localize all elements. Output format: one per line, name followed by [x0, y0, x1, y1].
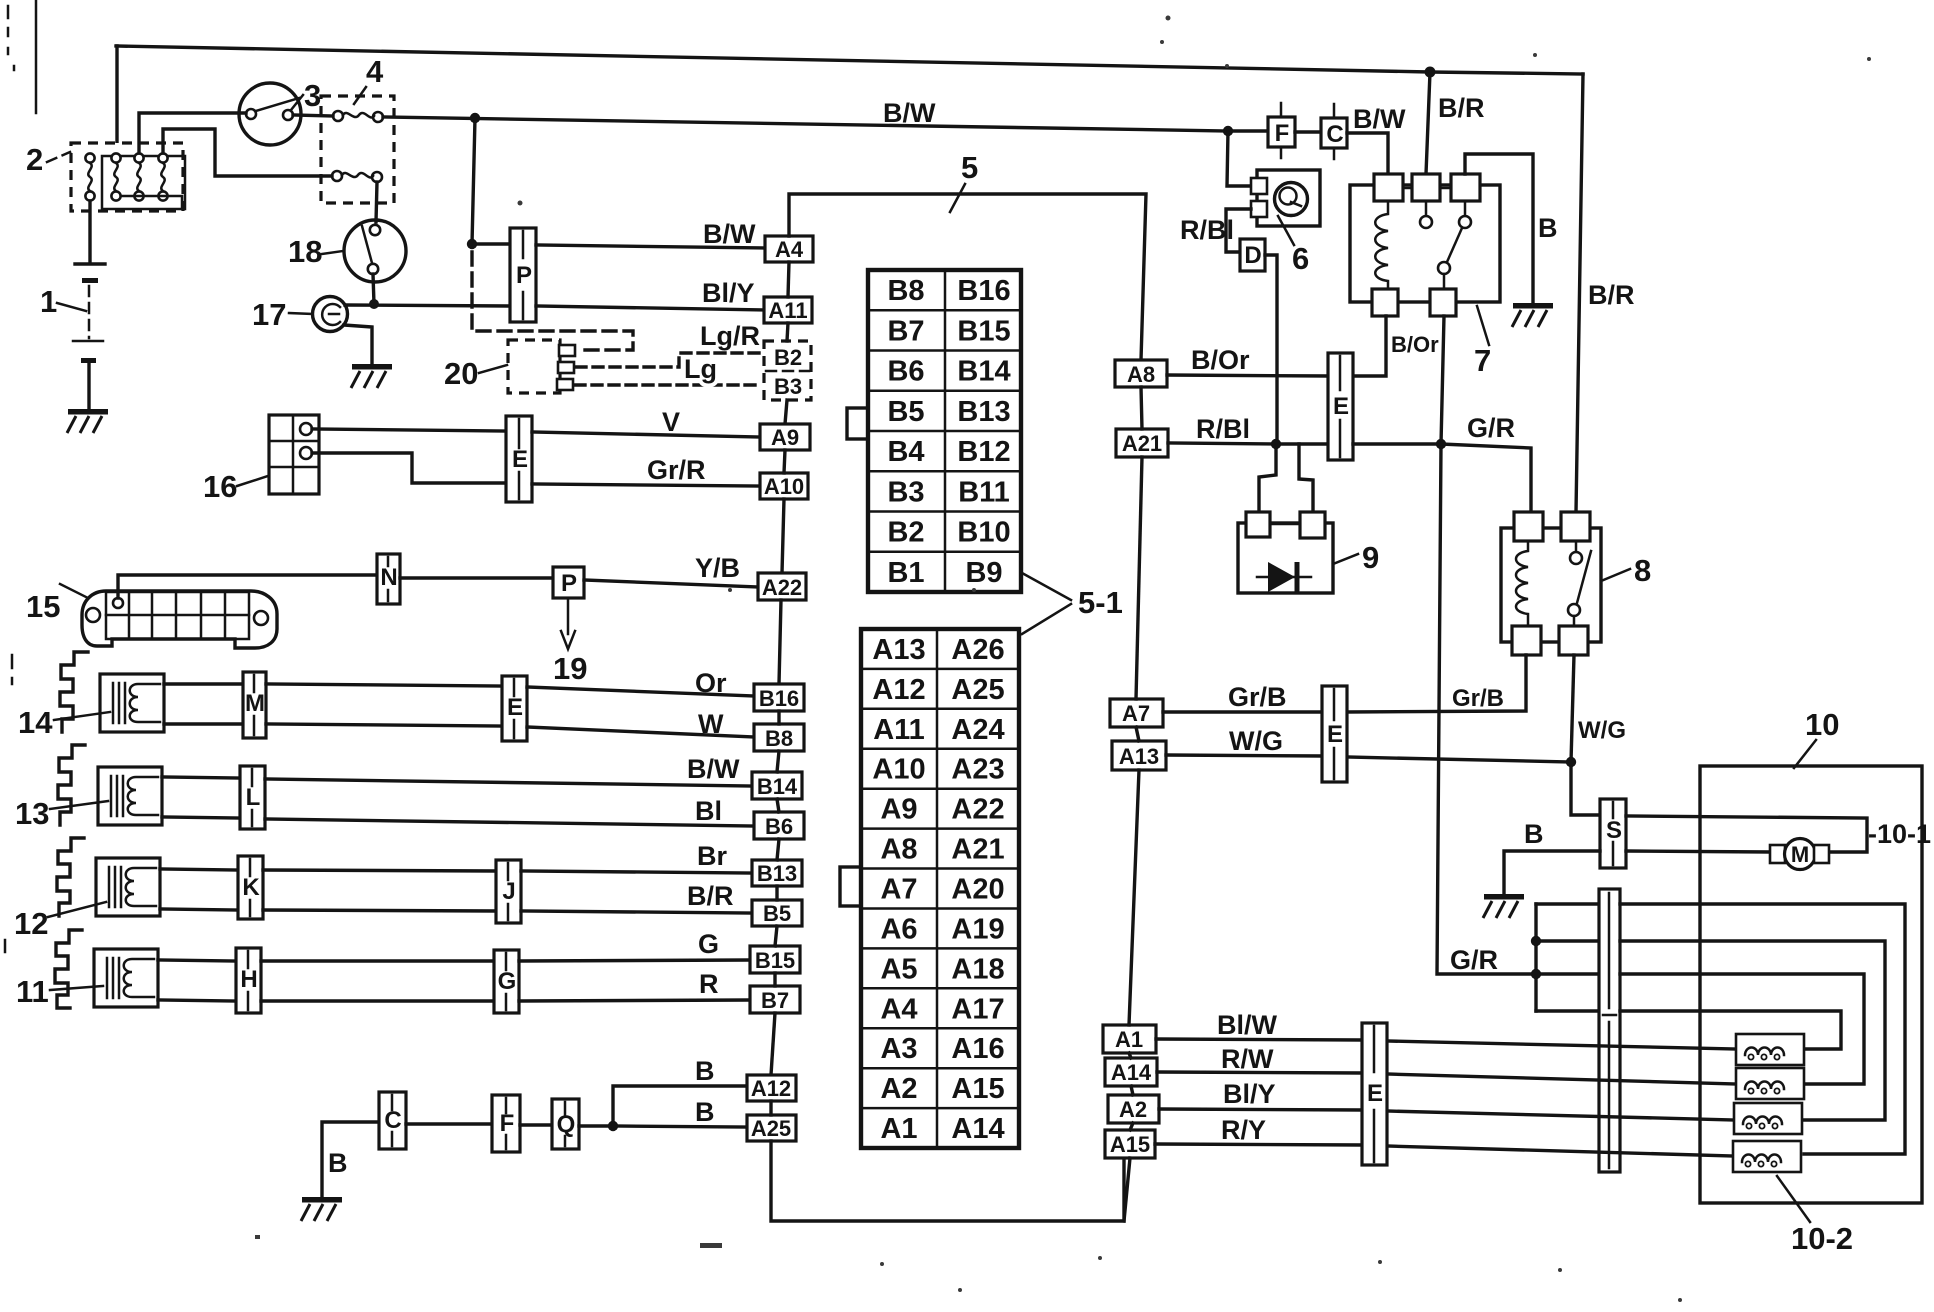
- ignition coil 13: [98, 767, 162, 825]
- wire: fuse2 top to top supply line: [115, 46, 118, 153]
- wire: E to coil3 Bl/Y: [1387, 1111, 1734, 1120]
- svg-text:A6: A6: [880, 913, 917, 945]
- svg-text:H: H: [240, 966, 257, 993]
- wire: drop to connector P: [472, 118, 475, 244]
- node: junction B wires: [608, 1121, 618, 1131]
- svg-text:Bl/Y: Bl/Y: [702, 278, 755, 308]
- wire: E to coil2 R/W: [1387, 1074, 1736, 1084]
- svg-text:B: B: [1524, 819, 1544, 849]
- svg-text:B8: B8: [887, 275, 924, 307]
- svg-text:A5: A5: [880, 953, 917, 985]
- svg-text:P: P: [561, 570, 577, 597]
- terminal B8: [754, 724, 804, 751]
- svg-text:B12: B12: [957, 436, 1010, 468]
- svg-text:Or: Or: [695, 668, 727, 698]
- svg-text:A11: A11: [873, 714, 925, 746]
- wire: A1 to E Bl/W: [1156, 1039, 1362, 1040]
- svg-text:B5: B5: [763, 901, 791, 926]
- svg-text:13: 13: [15, 796, 49, 831]
- svg-text:9: 9: [1362, 540, 1379, 575]
- svg-text:R/W: R/W: [1221, 1044, 1274, 1074]
- wire: fuse bottoms bus: [121, 196, 182, 208]
- svg-text:A15: A15: [951, 1073, 1004, 1105]
- wire: L to B14 B/W: [265, 779, 752, 786]
- callout line for 18: [322, 251, 343, 254]
- svg-text:A26: A26: [951, 634, 1004, 666]
- connector P: [510, 228, 536, 322]
- wire: fuse 2c to switch 3: [139, 113, 246, 153]
- svg-text:W: W: [698, 709, 724, 739]
- wire: A-bus A7-A13: [1136, 727, 1139, 741]
- wire: coil11 to H bottom: [158, 1000, 236, 1001]
- svg-text:L: L: [246, 784, 261, 811]
- connector E (mid): [1328, 353, 1353, 460]
- wire: A22 to B16 bus: [779, 600, 781, 684]
- ignition coil 11: [94, 949, 158, 1007]
- wire: A25 to bottom bus to A15: [771, 1141, 1124, 1221]
- wire: Q to junction: [579, 1124, 613, 1127]
- wire: relay 8 BR down W/G: [1571, 655, 1574, 762]
- relay 8 terminal TL: [1514, 512, 1543, 541]
- ground (harness B): [301, 1197, 342, 1221]
- dashed harness from P junction: [472, 252, 633, 350]
- wire: R/Bl junction to E: [1276, 442, 1328, 445]
- svg-text:A4: A4: [880, 993, 917, 1025]
- diode unit 9 outline: [1238, 523, 1333, 593]
- svg-text:A25: A25: [951, 674, 1004, 706]
- svg-text:Gr/B: Gr/B: [1452, 685, 1504, 712]
- svg-text:A20: A20: [951, 874, 1004, 906]
- relay 7 contact moving: [1464, 201, 1467, 216]
- wire: B1-B2 link: [1398, 301, 1430, 304]
- svg-text:A11: A11: [768, 298, 807, 323]
- node: junction top wire B/R: [1425, 67, 1436, 78]
- terminal B15: [750, 946, 800, 973]
- svg-text:B7: B7: [761, 988, 789, 1013]
- svg-text:B: B: [695, 1097, 715, 1127]
- callout line for 10: [1794, 740, 1816, 768]
- connector G: [494, 950, 519, 1013]
- callout line for 6: [1278, 216, 1294, 245]
- diode 9 terminal left: [1246, 512, 1270, 537]
- wire: A10 to A22 bus: [782, 499, 784, 573]
- wire: B3 to A9 bus: [785, 400, 787, 424]
- svg-text:2: 2: [26, 142, 43, 177]
- svg-text:E: E: [1327, 721, 1343, 748]
- svg-text:B6: B6: [765, 814, 793, 839]
- connector E (16): [506, 416, 532, 502]
- CDI bracket 15 outline: [82, 591, 277, 648]
- wire: A-bus A14-A2: [1131, 1086, 1133, 1095]
- relay 7 contact fixed: [1425, 201, 1428, 216]
- wire: A-bus A21-A7: [1136, 457, 1142, 699]
- svg-text:B: B: [328, 1148, 348, 1178]
- connector S: [1600, 799, 1626, 868]
- svg-text:B14: B14: [957, 356, 1010, 388]
- callout line for 9: [1333, 554, 1358, 564]
- svg-text:15: 15: [26, 589, 60, 624]
- svg-text:A9: A9: [771, 425, 799, 450]
- node: junction above connector P: [467, 239, 477, 249]
- relay 8 terminal BL: [1512, 626, 1541, 655]
- arrow to 19: [561, 598, 575, 649]
- wire: P to A4 B/W: [536, 245, 765, 248]
- svg-text:B5: B5: [887, 396, 924, 428]
- wire: bracket to T pin 2: [1536, 939, 1599, 942]
- terminal B16: [754, 684, 804, 711]
- callout line for 20: [479, 365, 507, 373]
- igniter 6 terminal S1: [1251, 178, 1267, 194]
- wire: B14 to B6 bus: [777, 799, 779, 812]
- wire: coil11 to H top: [158, 960, 236, 961]
- svg-text:D: D: [1244, 242, 1261, 269]
- terminal A15: [1105, 1130, 1155, 1158]
- ignition switch 3 body: [239, 83, 301, 145]
- fuse 2a: [85, 153, 94, 162]
- node: bracket junction 2: [1531, 969, 1541, 979]
- wire: bulb 17 to connector P pin 2: [345, 305, 510, 306]
- wire: E to W/G junction: [1347, 757, 1571, 762]
- relay 7 terminal T3: [1451, 174, 1480, 201]
- connector E (coil 14): [502, 676, 527, 741]
- wire: C to relay 7 terminal T1: [1347, 133, 1388, 174]
- svg-text:R: R: [699, 969, 719, 999]
- callout line for 11: [50, 986, 103, 990]
- svg-text:A16: A16: [951, 1033, 1004, 1065]
- terminal A21: [1116, 429, 1168, 457]
- callout line for 17: [289, 313, 312, 314]
- svg-text:A14: A14: [951, 1113, 1004, 1145]
- svg-text:W/G: W/G: [1578, 717, 1626, 744]
- wire: F to C: [1295, 130, 1321, 133]
- svg-text:A12: A12: [872, 674, 925, 706]
- pickup unit 16 block: [269, 415, 319, 494]
- svg-text:G: G: [698, 929, 719, 959]
- wire: A-bus A13-A1: [1129, 770, 1139, 1025]
- svg-text:A23: A23: [951, 754, 1004, 786]
- svg-text:A18: A18: [951, 953, 1004, 985]
- svg-text:A13: A13: [1119, 744, 1159, 769]
- fuse 2c: [134, 153, 143, 162]
- igniter 6 rotor circles: [1275, 183, 1308, 216]
- terminal A9: [760, 424, 810, 450]
- wire: E to relay 7 B1: [1353, 316, 1386, 376]
- svg-text:B7: B7: [887, 315, 924, 347]
- dashed wire Lg to B3: [575, 383, 762, 386]
- fuse 2d: [158, 153, 167, 162]
- svg-text:A8: A8: [880, 834, 917, 866]
- wire: T pin4 to coil1 loop: [1620, 1011, 1841, 1049]
- wire: diode terminals link: [1270, 523, 1300, 526]
- relay 7 terminal T2: [1412, 174, 1440, 201]
- relay 7 terminal B2: [1430, 289, 1456, 316]
- wire: coil14 to M top: [164, 682, 243, 685]
- wire: W/G junction to S: [1571, 762, 1600, 815]
- terminal A14: [1105, 1058, 1157, 1086]
- wire: J to B5 B/R: [521, 911, 752, 913]
- connector J: [496, 860, 521, 923]
- svg-text:N: N: [380, 564, 397, 591]
- terminal B2/B3 dashed box: [764, 341, 811, 400]
- wire: F to Q: [520, 1123, 552, 1126]
- wire: E to B8 W: [527, 727, 754, 737]
- svg-text:B3: B3: [887, 476, 924, 508]
- callout line for 2: [47, 152, 70, 162]
- wire: E to B16 Or: [527, 687, 754, 696]
- svg-text:16: 16: [203, 469, 237, 504]
- terminal t1 of 20: [559, 345, 575, 356]
- ground (relay 7): [1512, 303, 1553, 327]
- wire: E to relay 8 BL Gr/B: [1347, 655, 1526, 712]
- fuse box 2 dashed outline: [71, 143, 183, 211]
- svg-text:A7: A7: [880, 874, 917, 906]
- connector P (19): [553, 567, 584, 598]
- svg-text:W/G: W/G: [1229, 726, 1283, 756]
- wire: A7 to E Gr/B: [1163, 710, 1322, 713]
- svg-text:11: 11: [16, 974, 49, 1009]
- wire: top supply line B/R: [116, 46, 1583, 74]
- wire: ground to C: [322, 1122, 379, 1197]
- svg-text:B11: B11: [958, 476, 1010, 508]
- wire: T pin1 to coil4 loop: [1620, 904, 1905, 1154]
- wire: switch 3 to fuse 4a: [293, 115, 333, 116]
- connector M: [243, 672, 266, 738]
- connector K: [238, 856, 263, 919]
- svg-text:7: 7: [1474, 343, 1491, 378]
- diode 9 terminal right: [1300, 512, 1325, 538]
- svg-text:A10: A10: [872, 754, 925, 786]
- terminal B14: [752, 772, 802, 799]
- svg-text:V: V: [662, 407, 680, 437]
- svg-text:20: 20: [444, 356, 478, 391]
- svg-text:B8: B8: [765, 726, 793, 751]
- connector C (top): [1321, 104, 1347, 159]
- wire: coil12 to K top: [160, 869, 238, 870]
- wire: D down to R/Bl junction: [1265, 255, 1277, 444]
- wire: A15 to E R/Y: [1155, 1144, 1362, 1145]
- svg-text:M: M: [1791, 842, 1809, 867]
- terminal A2: [1108, 1095, 1159, 1123]
- switch 3 contacts: [246, 109, 256, 119]
- svg-text:F: F: [500, 1110, 515, 1137]
- svg-text:A21: A21: [951, 834, 1004, 866]
- wire: junction down to igniter 6: [1227, 131, 1251, 186]
- relay 8 terminal BR: [1559, 626, 1588, 655]
- terminal A11: [764, 297, 812, 323]
- svg-text:G/R: G/R: [1467, 413, 1515, 443]
- svg-text:B/Or: B/Or: [1391, 332, 1439, 357]
- svg-text:B2: B2: [887, 517, 924, 549]
- switch 3 arm: [256, 98, 299, 111]
- wire: B15 to B7 bus: [773, 973, 776, 986]
- connector E (A7/A13): [1322, 686, 1347, 782]
- svg-text:A15: A15: [1110, 1132, 1150, 1157]
- relay 7 outline: [1350, 185, 1500, 302]
- svg-text:10-2: 10-2: [1791, 1221, 1853, 1256]
- glow coil 3: [1734, 1103, 1802, 1134]
- callout 5-1: [1022, 573, 1123, 634]
- terminal A25: [747, 1115, 796, 1141]
- switch 18 arm: [362, 226, 372, 263]
- svg-text:B: B: [695, 1056, 715, 1086]
- igniter 6 box: [1257, 170, 1320, 226]
- spark lead zigzag (14): [60, 652, 88, 732]
- igniter 6 rotor tick: [1291, 202, 1301, 206]
- wire: to connector P pin 1: [472, 242, 510, 245]
- svg-text:A17: A17: [951, 993, 1004, 1025]
- ground (starter B): [1483, 894, 1524, 918]
- wire: 16 pin2 to E: [312, 453, 506, 483]
- engine stop switch 18 body: [344, 220, 406, 282]
- spark lead zigzag (13): [58, 745, 85, 825]
- svg-text:A1: A1: [1115, 1027, 1143, 1052]
- svg-text:P: P: [516, 262, 532, 289]
- connector C (bottom): [379, 1092, 406, 1149]
- svg-text:12: 12: [14, 906, 48, 941]
- ignition coil 14: [100, 674, 164, 732]
- wire: 15 to connector N: [118, 575, 377, 598]
- wire: T2-T3 link: [1440, 187, 1451, 190]
- A table side tab: [840, 867, 861, 906]
- svg-text:A4: A4: [775, 237, 804, 262]
- wire: B5 to B15 bus: [775, 926, 777, 946]
- wire: A13 to E W/G: [1166, 755, 1322, 756]
- svg-text:8: 8: [1634, 553, 1651, 588]
- svg-text:B3: B3: [774, 374, 802, 399]
- switch 18 contacts: [370, 225, 380, 235]
- callout line for 13: [50, 801, 108, 809]
- wire: A14 to E R/W: [1157, 1072, 1362, 1073]
- wire: A-bus A15 down: [1124, 1158, 1130, 1221]
- wire: J to B13 Br: [521, 871, 752, 873]
- wire: B16 to B8 bus: [777, 711, 780, 724]
- svg-text:Bl/W: Bl/W: [1217, 1010, 1278, 1040]
- callout line for 15: [60, 584, 88, 598]
- wire: diode 9 left lead: [1259, 444, 1276, 512]
- wire: E to A10 Gr/R: [532, 484, 760, 486]
- diode 9 symbol: [1257, 562, 1311, 592]
- connector E (starter harness): [1362, 1023, 1387, 1165]
- wire: M to E bottom: [266, 724, 502, 726]
- connector L: [240, 766, 265, 829]
- svg-text:F: F: [1275, 120, 1290, 147]
- wire: junction to A12: [613, 1086, 747, 1126]
- svg-text:Br: Br: [697, 841, 727, 871]
- terminal A7: [1110, 699, 1163, 727]
- wire: T3 to ground: [1465, 154, 1533, 303]
- optional unit 20 dashed box: [508, 340, 560, 393]
- svg-text:E: E: [1367, 1080, 1383, 1107]
- svg-text:A7: A7: [1122, 701, 1150, 726]
- wire: coil14 to M bottom: [164, 722, 243, 725]
- B table side tab: [847, 408, 868, 439]
- callout line for 14: [54, 712, 110, 720]
- svg-text:Q: Q: [557, 1111, 576, 1138]
- node: G/R junction: [1436, 439, 1446, 449]
- starter unit 10 outline: [1700, 766, 1922, 1203]
- wire: A2 to E Bl/Y: [1159, 1109, 1362, 1110]
- wire: diode 9 right lead: [1299, 444, 1313, 512]
- wire: A21 to R/Bl junction: [1168, 443, 1276, 444]
- svg-text:B10: B10: [957, 517, 1010, 549]
- bracket 15 wire post: [113, 598, 123, 608]
- wire: T1-T2 link: [1403, 187, 1412, 190]
- fuse holder 4 dashed outline: [321, 96, 394, 203]
- wire: B6 to B13 bus: [777, 839, 779, 860]
- spark lead zigzag (11): [55, 930, 82, 1008]
- bracket 15 grid: [106, 592, 249, 639]
- connector table 5-1 (A pins): [861, 629, 1019, 1148]
- svg-text:C: C: [384, 1107, 401, 1134]
- connector N: [377, 554, 400, 604]
- terminal B6: [754, 812, 804, 839]
- connector F (top): [1268, 103, 1295, 158]
- wire: P to A22 Y/B: [584, 580, 758, 587]
- page edge mark mid-left: [5, 655, 12, 952]
- wire: coil12 to K bottom: [160, 909, 238, 910]
- wire: H to G bottom: [261, 999, 494, 1002]
- svg-text:10: 10: [1805, 707, 1839, 742]
- svg-text:A1: A1: [880, 1113, 917, 1145]
- ignition coil 12: [96, 858, 160, 916]
- fuse box 2 inner solid outline: [102, 156, 185, 209]
- svg-text:B4: B4: [887, 436, 924, 468]
- callout line for 16: [237, 476, 268, 486]
- wire: K to J top: [263, 870, 496, 871]
- terminal A4: [765, 236, 813, 262]
- svg-text:Gr/B: Gr/B: [1228, 682, 1287, 712]
- svg-text:5: 5: [961, 150, 978, 185]
- svg-text:A14: A14: [1111, 1060, 1152, 1085]
- wire: 16 pin1 to E: [312, 429, 506, 431]
- wire: C to F: [406, 1122, 492, 1125]
- svg-text:B/W: B/W: [703, 219, 756, 249]
- wire: CDI top link (5): [789, 194, 1146, 360]
- battery 1 lead from fuse 2a: [88, 201, 91, 263]
- wire: bracket to T pin 4: [1536, 1009, 1599, 1012]
- wire: T pin3 to coil2 loop: [1620, 974, 1864, 1084]
- callout line for 10-2: [1777, 1176, 1810, 1222]
- svg-text:B16: B16: [759, 686, 799, 711]
- callout line for 1: [57, 303, 86, 311]
- wire: E to coil4 R/Y: [1387, 1146, 1733, 1156]
- node: junction bulb/switch: [369, 299, 379, 309]
- svg-text:B13: B13: [957, 396, 1010, 428]
- wire: E to relay 8 coil G/R: [1353, 444, 1531, 512]
- wire: G to B15 G: [519, 960, 750, 961]
- wire: G/R bracket: [1534, 904, 1537, 1011]
- wire: S to motor loop 10-1: [1626, 816, 1867, 852]
- terminal A10: [760, 473, 808, 499]
- svg-text:-10-1: -10-1: [1868, 819, 1931, 849]
- relay 7 terminal B1: [1372, 289, 1398, 316]
- wire: H to G top: [261, 959, 494, 962]
- glow coil 4: [1733, 1141, 1801, 1172]
- relay 7 terminal T1: [1374, 174, 1403, 201]
- svg-text:A21: A21: [1122, 431, 1162, 456]
- svg-text:14: 14: [18, 705, 53, 740]
- svg-text:A22: A22: [951, 794, 1004, 826]
- connector D: [1240, 239, 1265, 271]
- wire: bracket to T pin 1: [1536, 902, 1599, 905]
- wire: A-bus A2-A15: [1130, 1123, 1133, 1130]
- wire: A9 to A10 bus: [784, 450, 785, 473]
- relay 8 terminal TR: [1561, 512, 1590, 541]
- svg-text:B/R: B/R: [687, 881, 734, 911]
- svg-text:18: 18: [288, 234, 322, 269]
- svg-text:E: E: [512, 446, 528, 473]
- callout line for 7: [1477, 306, 1489, 345]
